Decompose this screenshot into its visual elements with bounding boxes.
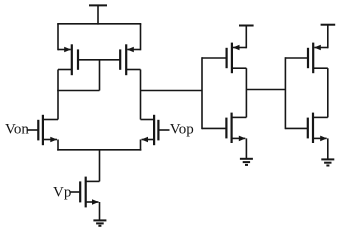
wire: common source rail: [57, 149, 141, 151]
transistor NMOS tail current source: [70, 177, 98, 208]
wire: stage1 output to stage2 input: [141, 90, 203, 92]
wire: stage2 output column: [245, 68, 247, 117]
wire: VDD rail stage 1: [57, 23, 141, 25]
VDD supply T-bar stage 2: [239, 26, 254, 49]
wire: right drain column: [140, 70, 142, 120]
ground symbol stage 2: [240, 159, 253, 165]
wire: mirror gate-to-drain tap: [57, 60, 99, 91]
wire: stage3 output column: [327, 68, 329, 117]
wire: right PMOS source drop: [140, 24, 142, 51]
transistor PMOS mirror left: [58, 44, 78, 75]
wire: stage2 output to stage3 input: [246, 89, 285, 91]
transistor PMOS stage 2: [202, 43, 246, 74]
wire: mirror gates tie line: [78, 59, 120, 61]
svg-text:Vop: Vop: [170, 122, 194, 138]
label Vp: [53, 184, 71, 200]
label Von: [5, 122, 29, 138]
label Vop: [170, 122, 194, 138]
VDD supply T-bar stage 1: [89, 5, 107, 24]
ground symbol tail: [93, 220, 106, 225]
wire: stage3 input column: [284, 57, 286, 129]
transistor NMOS stage 3: [285, 113, 327, 143]
VDD supply T-bar stage 3: [321, 25, 336, 49]
wire: stage2 source to ground: [245, 138, 247, 158]
svg-text:Vp: Vp: [53, 184, 71, 200]
transistor NMOS input left: [27, 115, 58, 145]
wire: left drain column: [57, 70, 59, 120]
ground symbol stage 3: [321, 159, 334, 165]
wire: right source drop: [140, 140, 142, 151]
wire: left PMOS source drop: [57, 24, 59, 51]
wire: stage2 input column: [201, 57, 203, 129]
wire: stage3 source to ground: [327, 138, 329, 159]
transistor PMOS mirror right: [120, 44, 140, 75]
transistor NMOS input right: [141, 115, 170, 145]
transistor PMOS stage 3: [285, 43, 327, 74]
wire: tail drain tap: [86, 150, 100, 182]
svg-text:Von: Von: [5, 122, 29, 138]
wire: left source drop: [57, 140, 59, 151]
transistor NMOS stage 2: [202, 113, 246, 143]
wire: tail source to ground: [99, 202, 101, 220]
